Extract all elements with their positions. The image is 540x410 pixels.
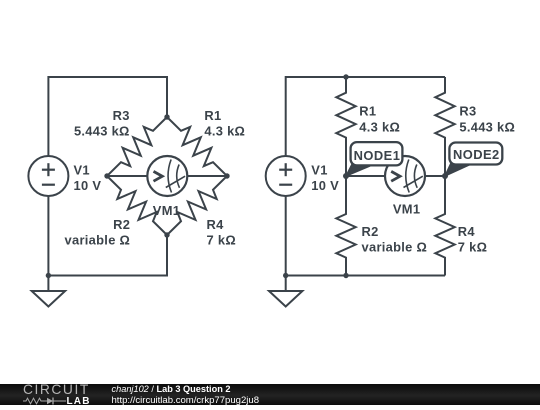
svg-text:R3: R3 — [113, 108, 130, 123]
svg-text:variable Ω: variable Ω — [362, 240, 428, 255]
svg-text:NODE1: NODE1 — [354, 148, 401, 163]
svg-text:4.3 kΩ: 4.3 kΩ — [359, 120, 400, 135]
svg-text:7 kΩ: 7 kΩ — [458, 240, 487, 255]
svg-text:R4: R4 — [458, 224, 476, 239]
svg-text:NODE2: NODE2 — [453, 147, 500, 162]
svg-text:VM1: VM1 — [393, 202, 420, 217]
svg-text:5.443 kΩ: 5.443 kΩ — [74, 124, 130, 139]
svg-text:7 kΩ: 7 kΩ — [207, 233, 236, 248]
svg-text:R1: R1 — [204, 108, 221, 123]
svg-text:R4: R4 — [207, 217, 225, 232]
svg-text:4.3 kΩ: 4.3 kΩ — [204, 124, 245, 139]
svg-text:VM1: VM1 — [153, 203, 180, 218]
svg-text:variable Ω: variable Ω — [65, 233, 131, 248]
svg-text:10 V: 10 V — [74, 178, 102, 193]
svg-text:R3: R3 — [459, 104, 476, 119]
svg-text:V1: V1 — [74, 163, 90, 178]
svg-text:R2: R2 — [113, 217, 130, 232]
svg-text:R1: R1 — [359, 104, 376, 119]
svg-text:R2: R2 — [362, 224, 379, 239]
svg-text:10 V: 10 V — [311, 178, 339, 193]
svg-text:V1: V1 — [311, 163, 327, 178]
svg-text:5.443 kΩ: 5.443 kΩ — [459, 120, 515, 135]
